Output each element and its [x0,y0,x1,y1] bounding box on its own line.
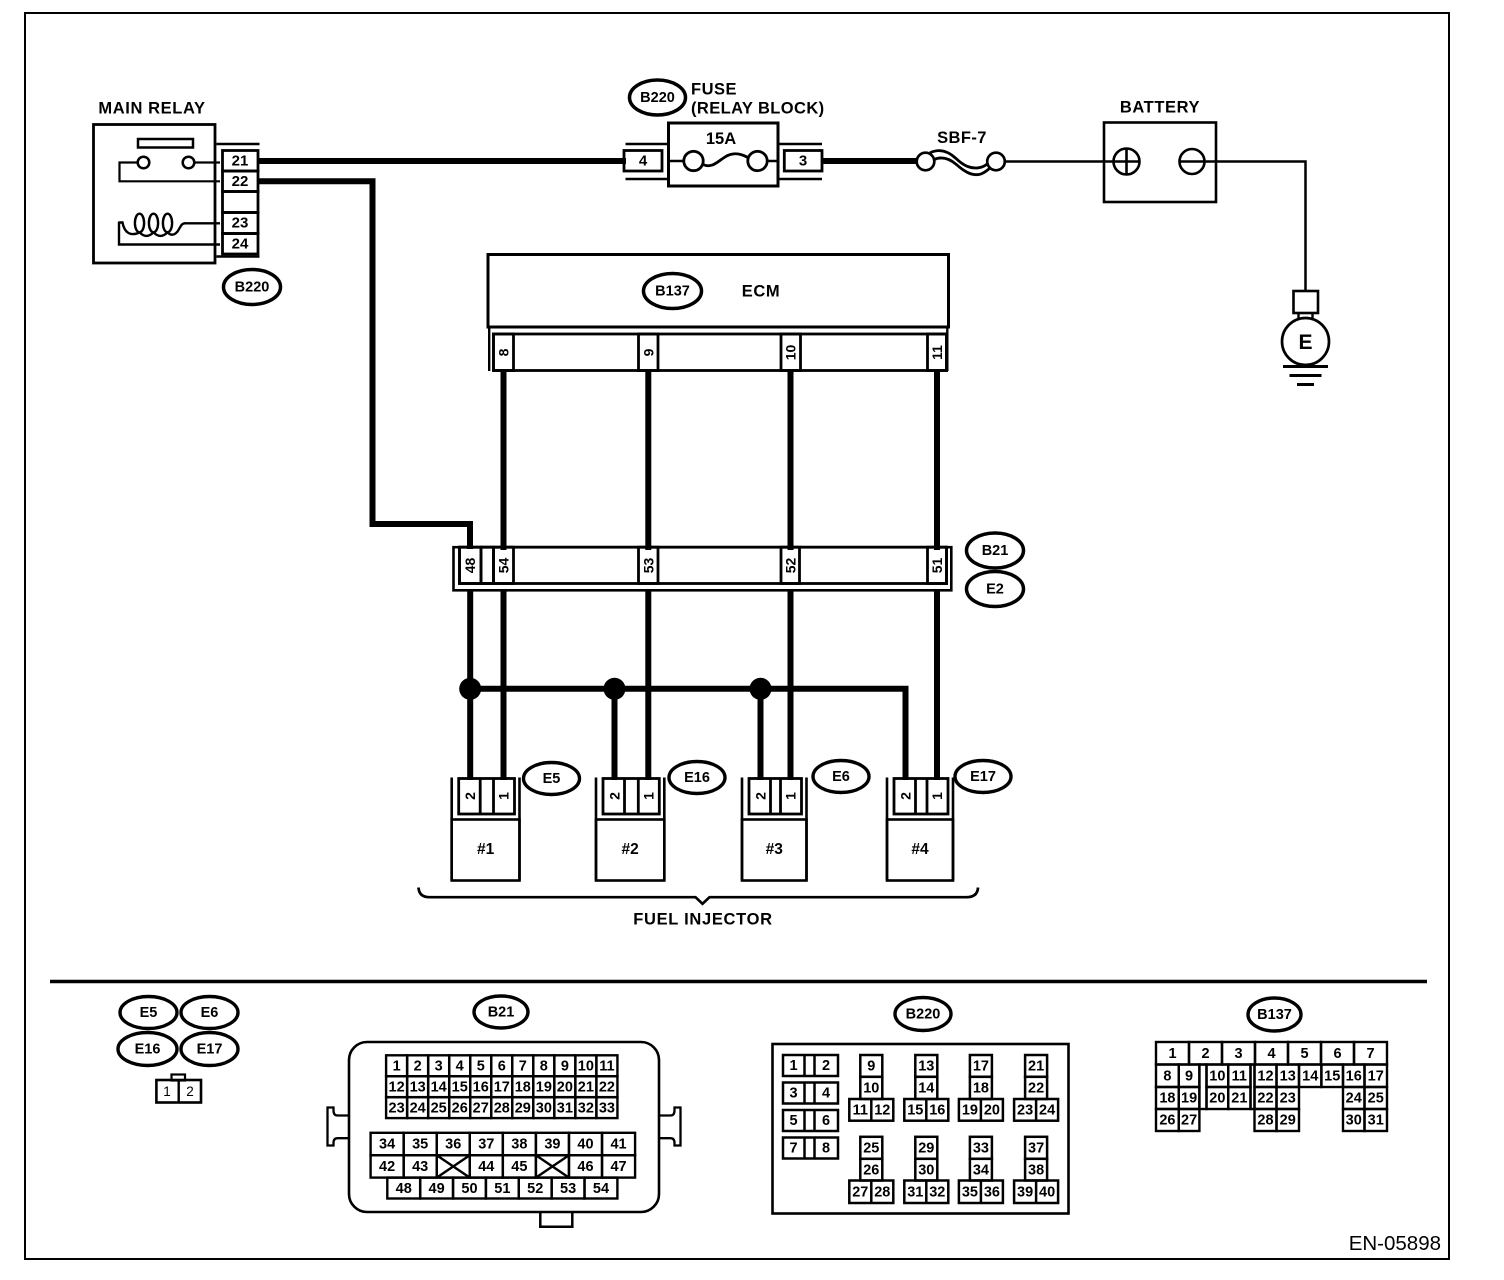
connector view oval E5 [120,997,177,1029]
svg-text:27: 27 [852,1184,868,1200]
svg-text:22: 22 [232,173,249,190]
svg-text:19: 19 [962,1103,978,1119]
connector view oval B220 [895,998,951,1031]
svg-text:20: 20 [984,1103,1000,1119]
svg-text:4: 4 [456,1058,464,1074]
injector #3 pin box [749,779,802,815]
wire pin21 to fuse pin4 [258,158,626,164]
svg-text:24: 24 [1346,1091,1362,1107]
fuel injector #2 connector housing [595,778,598,881]
svg-text:1: 1 [496,792,512,800]
wire pin52 to injector #3 pin1 [788,589,794,780]
main relay box [94,125,216,264]
svg-text:18: 18 [515,1079,531,1095]
connector id oval B220 (main relay) [224,270,281,305]
svg-text:25: 25 [863,1141,879,1157]
svg-text:40: 40 [1039,1184,1055,1200]
ECM connector side stubs [488,327,490,371]
connector B220 relay-side outline [217,143,260,145]
svg-text:38: 38 [1028,1162,1044,1178]
svg-text:23: 23 [389,1100,405,1116]
fuel injector #1 connector housing [450,778,453,881]
svg-text:53: 53 [560,1181,576,1197]
connector id oval B21 [967,533,1024,568]
ECM pin 9 [639,334,659,371]
svg-text:11: 11 [1232,1068,1247,1084]
svg-text:32: 32 [578,1100,594,1116]
svg-text:16: 16 [1346,1068,1362,1084]
svg-text:B137: B137 [655,284,690,300]
B21 pin grid 48-54 [387,1178,617,1199]
injector connector face [156,1080,201,1103]
svg-text:32: 32 [929,1184,945,1200]
fuse holder rail bottom left [626,178,669,180]
fuel injector #3 body [742,820,807,881]
wire SBF-7 to battery [1005,160,1114,163]
svg-text:E2: E2 [986,582,1004,598]
fuse holder rail top left [626,143,669,145]
svg-text:34: 34 [973,1162,989,1178]
wire coil to pin 23 [184,222,220,224]
svg-text:29: 29 [515,1100,531,1116]
svg-text:21: 21 [1028,1059,1044,1075]
B21 right mount tab [659,1108,681,1146]
svg-text:36: 36 [984,1184,1000,1200]
svg-text:22: 22 [1028,1081,1044,1097]
svg-text:6: 6 [498,1058,506,1074]
svg-text:2: 2 [462,792,478,800]
svg-text:1: 1 [640,792,656,800]
connector pin 52 [781,547,800,583]
svg-text:20: 20 [557,1079,573,1095]
svg-text:26: 26 [863,1162,879,1178]
svg-text:17: 17 [1368,1068,1384,1084]
svg-text:45: 45 [511,1159,527,1175]
B220 pins 5/6 [783,1110,838,1131]
B21 pin grid 1-33 [386,1055,617,1118]
svg-text:28: 28 [494,1100,510,1116]
junction node 1 [459,678,481,700]
main relay coil L1 [119,214,185,236]
svg-text:15: 15 [907,1103,923,1119]
svg-text:1: 1 [929,792,945,800]
svg-text:2: 2 [1201,1046,1209,1062]
svg-text:3: 3 [799,153,807,170]
B220 pins 3/4 [783,1083,838,1104]
main relay contact left [138,157,150,169]
svg-text:35: 35 [412,1137,428,1153]
svg-text:8: 8 [822,1141,830,1157]
SBF-7 link wire [930,151,988,168]
fuse element left terminal [684,151,703,170]
svg-text:E5: E5 [543,771,561,787]
svg-text:21: 21 [578,1079,594,1095]
pin 23 [223,213,259,234]
svg-text:B21: B21 [982,543,1009,559]
svg-text:1: 1 [783,792,799,800]
svg-text:54: 54 [593,1181,609,1197]
svg-text:33: 33 [973,1141,989,1157]
svg-text:9: 9 [1185,1068,1193,1084]
separator line between schematic and connector views [50,980,1427,984]
svg-text:E5: E5 [140,1005,158,1021]
ECM pin row [494,334,947,371]
ground symbol [1283,365,1328,368]
wire pin48 to injector #1 pin2 [467,589,473,780]
injector #4 pin box [894,779,948,815]
pin 21 [223,151,259,172]
connector id oval E6 (injector #3) [813,761,869,793]
SBF-7 right terminal [987,153,1005,171]
B220 pins 25-28 group [849,1137,893,1203]
svg-text:22: 22 [1257,1091,1273,1107]
svg-text:23: 23 [232,215,249,232]
connector view oval E6 [181,997,238,1029]
svg-text:(RELAY BLOCK): (RELAY BLOCK) [691,100,825,118]
svg-text:21: 21 [232,153,249,170]
svg-text:54: 54 [496,558,512,574]
svg-text:2: 2 [822,1058,830,1074]
connector id oval E5 (injector #1) [524,763,580,795]
svg-text:12: 12 [389,1079,405,1095]
svg-text:6: 6 [822,1113,830,1129]
svg-text:25: 25 [1368,1091,1384,1107]
svg-text:15: 15 [1324,1068,1340,1084]
svg-text:51: 51 [494,1181,510,1197]
svg-text:38: 38 [511,1137,527,1153]
wire fuse pin3 to SBF-7 [822,158,918,164]
svg-text:BATTERY: BATTERY [1120,99,1200,117]
injector connector face tab [172,1075,186,1081]
svg-text:#2: #2 [622,841,639,858]
fuel injector #2 body [596,820,664,881]
svg-text:5: 5 [477,1058,485,1074]
connector B21/E2 outline [454,547,952,590]
svg-text:13: 13 [410,1079,426,1095]
svg-text:8: 8 [1163,1068,1171,1084]
fuse pin 4 [624,151,662,172]
svg-text:48: 48 [396,1181,412,1197]
svg-text:44: 44 [478,1159,494,1175]
fuse box F1 15A [669,123,779,186]
svg-text:E17: E17 [197,1042,223,1058]
svg-text:30: 30 [918,1162,934,1178]
connector pin 51 [928,547,947,583]
wire ECM pin 11 down [934,371,940,551]
svg-text:15: 15 [452,1079,468,1095]
svg-text:10: 10 [578,1058,594,1074]
B220 pins 29-32 group [904,1137,948,1203]
svg-text:#1: #1 [477,841,495,858]
fuel injector #4 body [887,820,953,881]
svg-text:1: 1 [1168,1046,1176,1062]
B137 pin grid [1156,1042,1387,1131]
svg-text:14: 14 [431,1079,447,1095]
svg-text:46: 46 [577,1159,593,1175]
svg-text:4: 4 [822,1086,830,1102]
B220 pins 13-16 group [904,1055,948,1121]
svg-text:29: 29 [1280,1113,1296,1129]
wire ECM pin 10 down [788,371,794,551]
svg-text:49: 49 [429,1181,445,1197]
svg-text:B220: B220 [906,1007,941,1023]
svg-text:15A: 15A [706,130,736,148]
svg-text:B220: B220 [235,280,270,296]
svg-text:31: 31 [1368,1113,1384,1129]
svg-text:16: 16 [473,1079,489,1095]
SBF-7 left terminal [917,153,935,171]
svg-text:1: 1 [393,1058,401,1074]
svg-text:E: E [1298,331,1312,354]
svg-text:36: 36 [445,1137,461,1153]
svg-text:12: 12 [874,1103,890,1119]
B220 pins 1/2 [783,1055,838,1076]
svg-text:39: 39 [1017,1184,1033,1200]
connector pin 48 [460,547,482,583]
svg-text:2: 2 [414,1058,422,1074]
svg-text:7: 7 [1366,1046,1374,1062]
svg-text:25: 25 [431,1100,447,1116]
B220 pins 37-40 group [1014,1137,1058,1203]
svg-text:3: 3 [435,1058,443,1074]
svg-text:10: 10 [1209,1068,1225,1084]
connector view oval E17 [181,1033,238,1066]
junction node 2 [604,678,626,700]
ground connector square [1294,291,1319,313]
B220 pins 7/8 [783,1138,838,1159]
svg-text:MAIN RELAY: MAIN RELAY [98,100,205,118]
svg-text:3: 3 [1234,1046,1242,1062]
svg-text:11: 11 [929,345,945,360]
svg-text:12: 12 [1257,1068,1273,1084]
svg-text:#4: #4 [911,841,929,858]
injector #1 pin box [459,779,515,815]
svg-text:5: 5 [789,1113,797,1129]
ground circle E [1282,318,1329,365]
svg-text:19: 19 [1181,1091,1197,1107]
wire contact right to pin 21 [194,161,220,163]
battery minus terminal [1180,149,1205,174]
fuse holder rail bottom right [778,178,822,180]
svg-text:21: 21 [1231,1091,1247,1107]
svg-text:52: 52 [783,558,799,574]
B21 left mount tab [328,1108,350,1146]
svg-text:17: 17 [494,1079,510,1095]
connector pin 53 [639,547,659,583]
svg-text:39: 39 [544,1137,560,1153]
svg-text:47: 47 [610,1159,626,1175]
svg-text:43: 43 [412,1159,428,1175]
svg-text:B220: B220 [640,90,675,106]
connector B21/E2 pin row [460,547,947,583]
svg-text:EN-05898: EN-05898 [1349,1232,1441,1255]
pin 24 [223,234,259,255]
svg-text:4: 4 [1267,1046,1275,1062]
svg-text:9: 9 [640,348,656,356]
B220 pins 33-36 group [959,1137,1003,1203]
battery box [1104,123,1216,203]
ECM pin 10 [781,334,801,371]
svg-text:29: 29 [918,1141,934,1157]
svg-text:7: 7 [789,1141,797,1157]
B220 connector face outline [773,1044,1069,1214]
wire pin51 to injector #4 pin1 [934,589,940,780]
svg-text:19: 19 [536,1079,552,1095]
svg-text:26: 26 [1159,1113,1175,1129]
svg-text:2: 2 [753,792,769,800]
ground neck [1297,313,1299,319]
svg-text:E6: E6 [832,769,850,785]
svg-text:FUSE: FUSE [691,81,737,99]
svg-text:17: 17 [973,1059,989,1075]
svg-text:23: 23 [1280,1091,1296,1107]
injector #2 pin box [603,779,659,815]
svg-text:14: 14 [1302,1068,1318,1084]
svg-text:27: 27 [1181,1113,1197,1129]
svg-text:53: 53 [640,558,656,574]
battery plus terminal [1114,149,1140,175]
svg-text:41: 41 [610,1137,626,1153]
B21 connector face outline [349,1042,659,1212]
B220 pins 9-12 group [849,1055,893,1121]
fuel injector group brace [419,888,979,904]
junction node 3 [750,678,772,700]
svg-text:42: 42 [379,1159,395,1175]
svg-text:26: 26 [452,1100,468,1116]
ground bus wire [470,689,905,780]
svg-text:ECM: ECM [742,283,780,301]
main relay contact arm wire [120,163,221,182]
svg-text:10: 10 [863,1081,879,1097]
svg-text:20: 20 [1209,1091,1225,1107]
svg-text:33: 33 [599,1100,615,1116]
svg-text:24: 24 [232,236,249,253]
svg-text:9: 9 [561,1058,569,1074]
svg-text:34: 34 [379,1137,395,1153]
svg-text:E6: E6 [201,1005,219,1021]
connector view oval B21 [474,996,528,1028]
svg-text:8: 8 [540,1058,548,1074]
ECM pin 8 [494,334,514,371]
svg-text:24: 24 [1039,1103,1055,1119]
svg-text:11: 11 [853,1103,868,1119]
svg-text:51: 51 [929,558,945,574]
svg-text:16: 16 [929,1103,945,1119]
wire ECM pin 8 down [501,371,507,551]
fuse pin 3 [784,151,822,172]
svg-text:E17: E17 [970,769,996,785]
svg-text:18: 18 [1159,1091,1175,1107]
fuel injector #1 body [452,820,520,881]
svg-text:13: 13 [918,1059,934,1075]
svg-text:28: 28 [1257,1113,1273,1129]
connector id oval B220 (fuse) [630,80,686,115]
svg-text:30: 30 [1346,1113,1362,1129]
svg-text:B137: B137 [1257,1007,1292,1023]
B21 bottom tab [540,1212,572,1227]
svg-text:35: 35 [962,1184,978,1200]
svg-text:31: 31 [907,1184,923,1200]
svg-text:5: 5 [1300,1046,1308,1062]
svg-text:40: 40 [577,1137,593,1153]
connector id oval B137 (ECM) [644,274,702,309]
svg-text:48: 48 [462,558,478,574]
connector view oval E16 [118,1033,177,1066]
svg-text:31: 31 [557,1100,573,1116]
svg-text:30: 30 [536,1100,552,1116]
svg-text:3: 3 [789,1086,797,1102]
svg-text:7: 7 [519,1058,527,1074]
connector view oval B137 [1248,998,1301,1031]
wire pin22 to connector pin48 [258,181,470,549]
svg-text:13: 13 [1280,1068,1296,1084]
wire pin54 to injector #1 pin1 [501,589,507,780]
svg-text:24: 24 [410,1100,426,1116]
B21 pin grid 34-47 [371,1133,635,1178]
wire pin53 to injector #2 pin1 [645,589,651,780]
svg-text:FUEL INJECTOR: FUEL INJECTOR [633,911,773,929]
wire bus to injector #2 pin2 [612,689,618,780]
blank pin cell [223,192,259,213]
svg-text:4: 4 [639,153,648,170]
B220 pins 21-24 group [1014,1055,1058,1121]
fuse element wire [669,160,684,163]
wire ECM pin 9 down [645,371,651,551]
svg-text:2: 2 [186,1084,194,1099]
svg-text:#3: #3 [766,841,784,858]
svg-text:18: 18 [973,1081,989,1097]
connector id oval E17 (injector #4) [955,761,1011,793]
fuse holder rail top right [778,143,822,145]
svg-text:52: 52 [527,1181,543,1197]
svg-text:22: 22 [599,1079,615,1095]
connector pin 54 [494,547,514,583]
svg-text:28: 28 [874,1184,890,1200]
svg-text:9: 9 [867,1059,875,1075]
B220 pins 17-20 group [959,1055,1003,1121]
wire bus to injector #3 pin2 [758,689,764,780]
main relay contact right [183,157,195,169]
svg-text:37: 37 [1028,1141,1044,1157]
fuel injector #4 connector housing [886,778,889,881]
svg-text:E16: E16 [684,770,710,786]
svg-text:B21: B21 [488,1005,515,1021]
wire battery to ground [1205,162,1306,292]
svg-text:23: 23 [1017,1103,1033,1119]
svg-text:27: 27 [473,1100,489,1116]
svg-text:50: 50 [461,1181,477,1197]
svg-text:2: 2 [607,792,623,800]
pin 22 [223,171,259,192]
svg-text:6: 6 [1333,1046,1341,1062]
connector id oval E16 (injector #2) [669,762,725,794]
main relay contact bar [138,139,193,148]
fuse element right terminal [748,151,767,170]
connector id oval E2 [967,572,1024,607]
svg-text:37: 37 [478,1137,494,1153]
svg-text:14: 14 [918,1081,934,1097]
svg-text:2: 2 [898,792,914,800]
wire coil to pin 24 [119,222,220,245]
svg-text:SBF-7: SBF-7 [937,129,987,147]
blank pin cell [481,547,494,583]
svg-text:E16: E16 [135,1042,161,1058]
svg-text:1: 1 [163,1084,171,1099]
svg-text:10: 10 [783,345,799,361]
ECM box U1 [488,255,949,328]
svg-text:1: 1 [789,1058,797,1074]
svg-text:8: 8 [496,348,512,356]
